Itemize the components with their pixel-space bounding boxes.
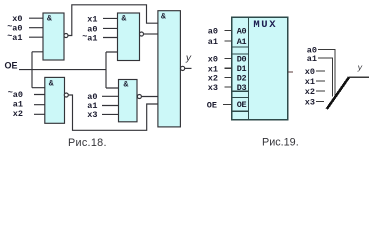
svg-text:x1: x1	[87, 14, 97, 24]
svg-text:x1: x1	[305, 77, 315, 87]
svg-text:x0: x0	[12, 14, 22, 24]
svg-text:MUX: MUX	[253, 19, 277, 31]
svg-text:D1: D1	[237, 64, 247, 74]
svg-text:x0: x0	[305, 67, 315, 77]
svg-text:&: &	[122, 15, 127, 24]
svg-text:x3: x3	[87, 110, 97, 120]
svg-text:a1: a1	[13, 99, 23, 109]
svg-text:x2: x2	[305, 87, 315, 97]
svg-text:OE: OE	[5, 61, 18, 71]
svg-text:a0: a0	[208, 27, 218, 37]
svg-text:x3: x3	[208, 83, 218, 93]
svg-text:Рис.19.: Рис.19.	[262, 137, 299, 149]
svg-text:&: &	[124, 81, 129, 90]
svg-text:x0: x0	[208, 55, 218, 65]
svg-text:OE: OE	[237, 100, 247, 110]
svg-text:a1: a1	[208, 37, 218, 47]
svg-text:D0: D0	[237, 54, 247, 64]
svg-text:a1: a1	[307, 54, 317, 64]
svg-text:A0: A0	[237, 26, 247, 36]
svg-text:x3: x3	[305, 97, 315, 107]
svg-text:&: &	[49, 80, 54, 89]
svg-text:D3: D3	[237, 83, 247, 93]
svg-text:Рис.18.: Рис.18.	[68, 137, 107, 149]
svg-text:&: &	[161, 13, 166, 22]
svg-text:&: &	[47, 15, 52, 24]
svg-text:у: у	[185, 53, 192, 64]
svg-text:x2: x2	[13, 109, 23, 119]
svg-text:у: у	[357, 64, 363, 73]
svg-text:OE: OE	[207, 100, 217, 110]
svg-text:A1: A1	[237, 37, 247, 47]
svg-text:D2: D2	[237, 74, 247, 84]
